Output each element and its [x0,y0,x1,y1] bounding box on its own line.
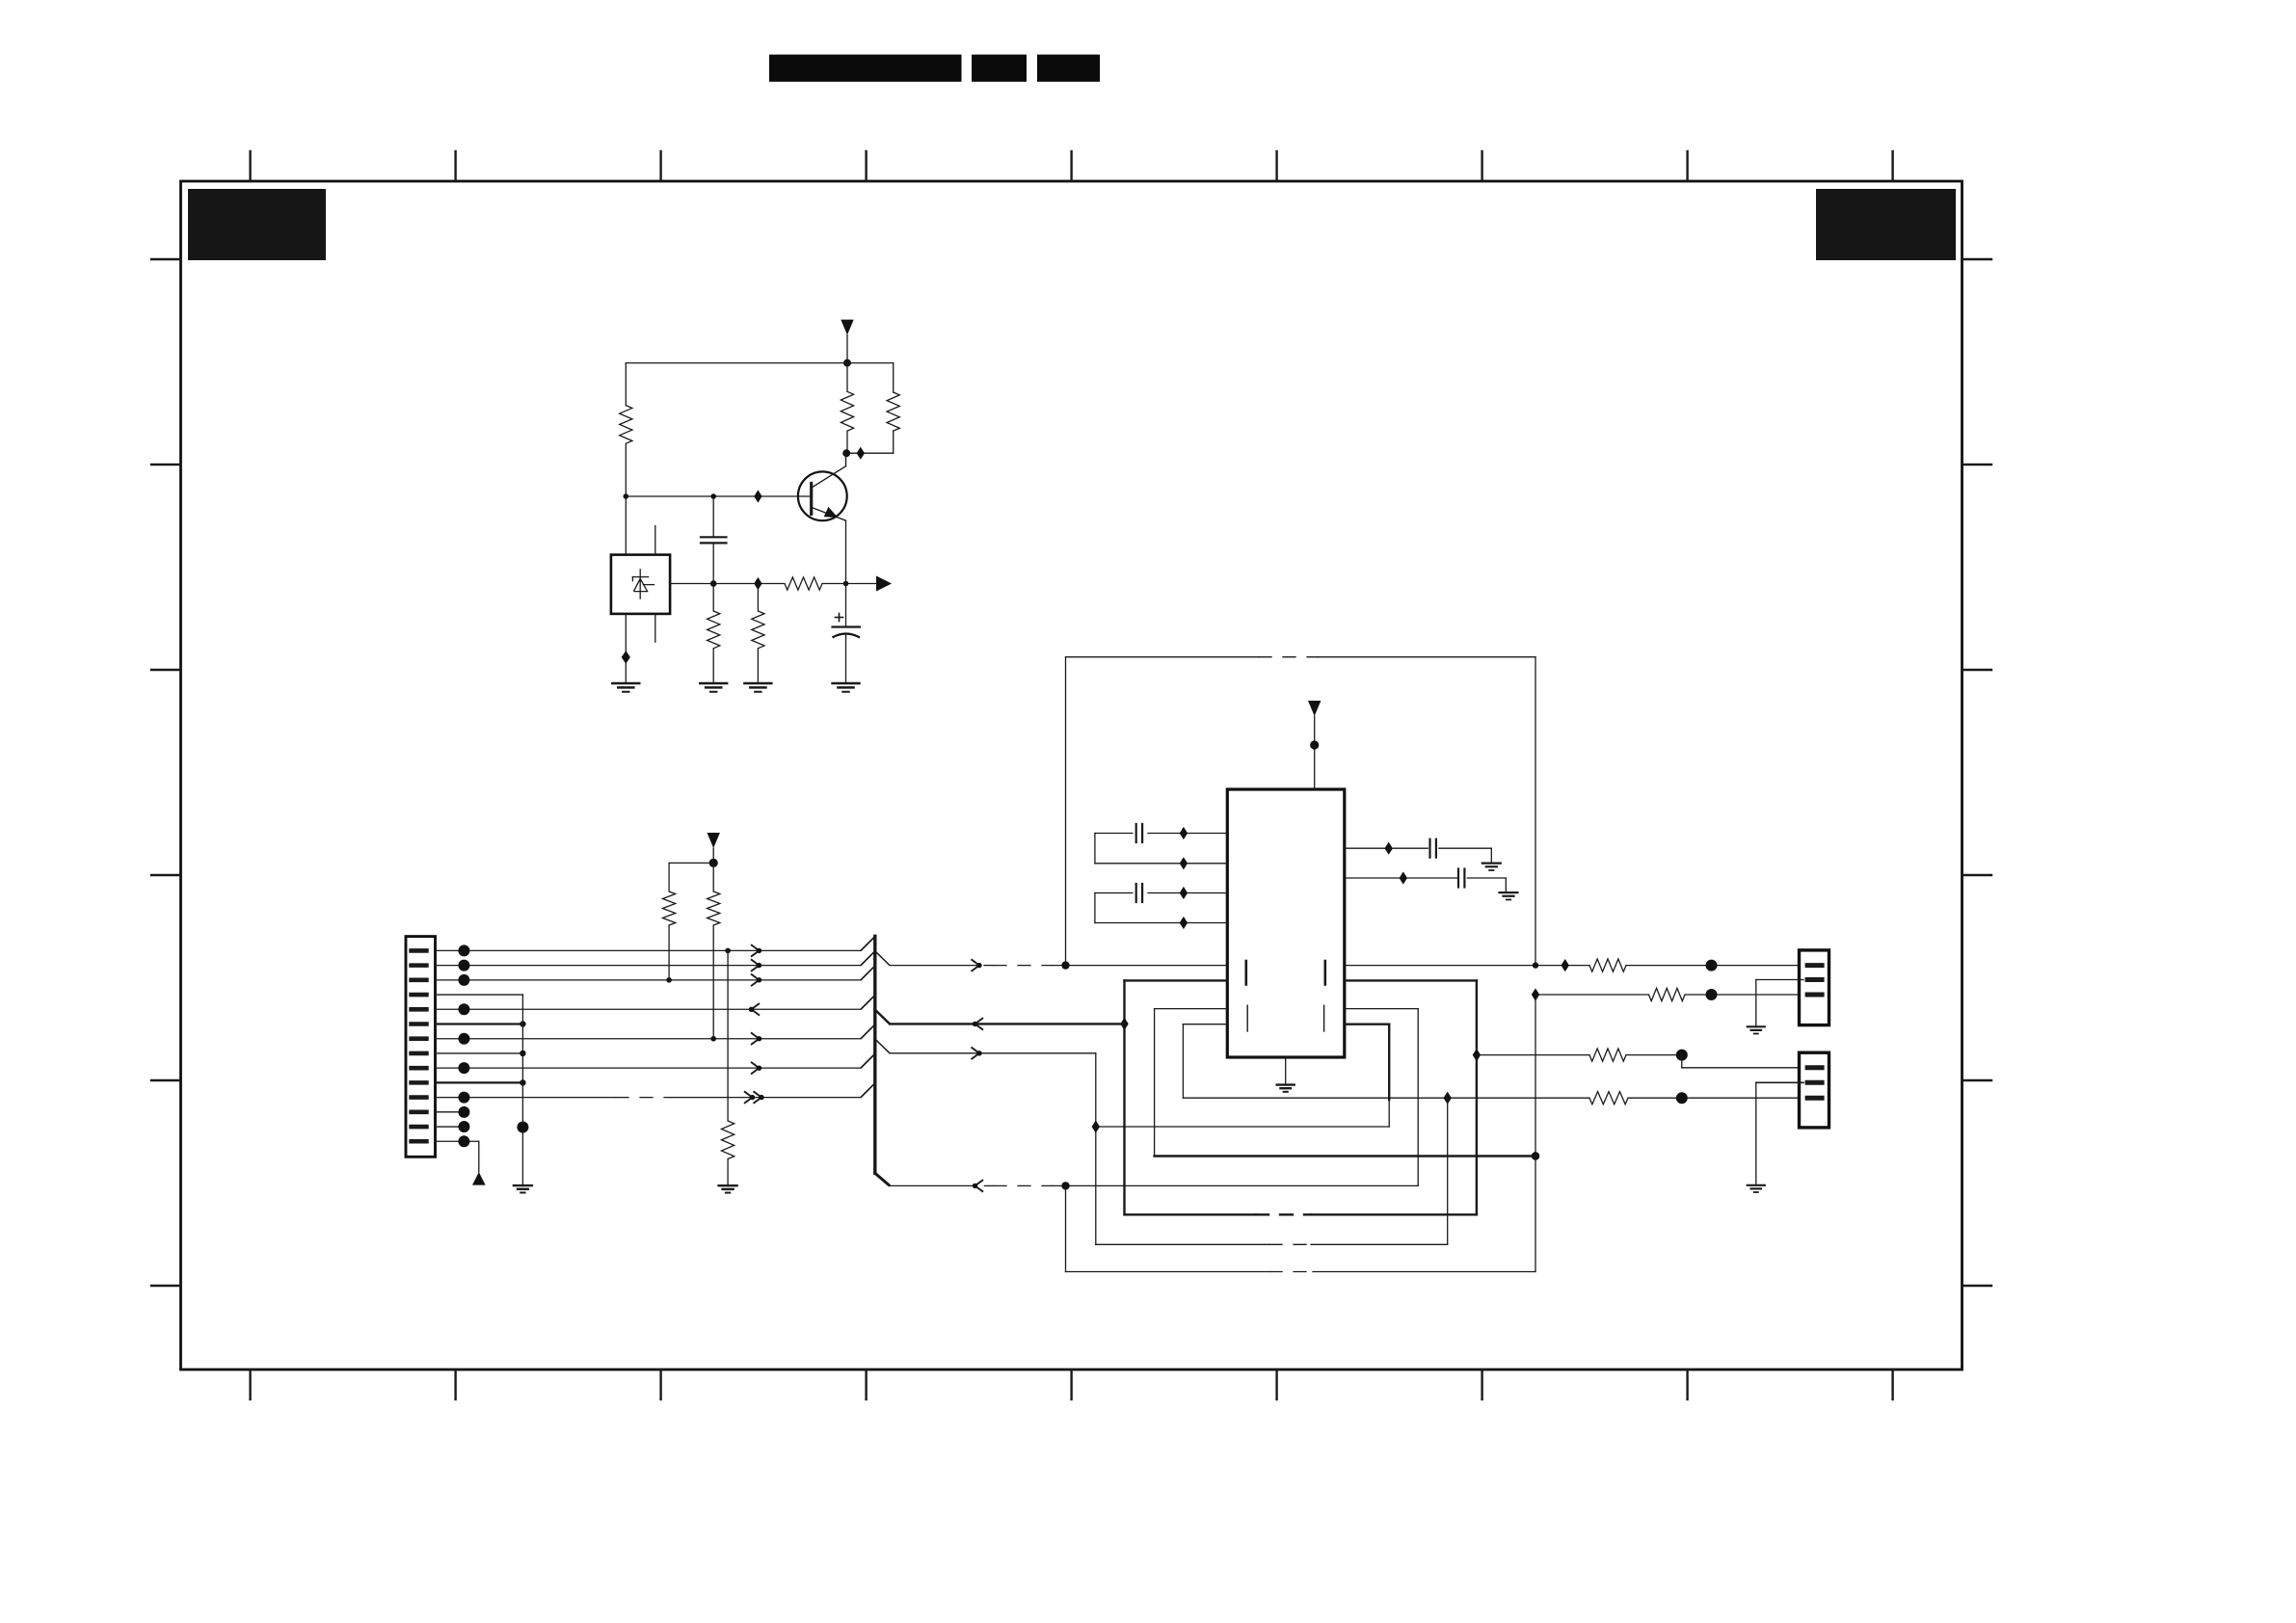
capacitor C3 (xtal1) [1095,824,1142,842]
arrow chevron row7 [751,1032,761,1045]
node marker diamond (box gnd) [622,651,630,664]
transistor Q1 (NPN) [798,453,847,520]
wire V8 [1447,1098,1449,1244]
wire base node to discriminator box [625,496,627,555]
node marker diamond xtal2 bottom [1180,917,1188,929]
bus exit L4 [875,1039,890,1053]
node marker diamond L6 [1444,1092,1452,1104]
node row3 J1 [458,974,469,986]
bus entry row9 [861,1053,875,1068]
node base-left [624,493,629,499]
node row3 pullup junction [666,977,672,983]
node row6 gnd rail [520,1021,525,1026]
wire L1 dashed [984,965,1052,967]
wire R8 to row7 [712,925,714,1039]
wire R3 row [1477,1054,1589,1056]
wire L1 into IC [1052,965,1227,967]
redacted title bar 3 [1037,55,1100,82]
wire L9 solid [1052,1184,1418,1186]
capacitor C1 (base decoupling) [701,496,727,584]
node row7 pullup junction [710,1036,716,1042]
node L1 shield box right [1533,962,1538,968]
node R1 junction [1706,960,1718,971]
wire R2 to collector node [846,431,848,453]
node output-cap junction [710,580,717,587]
wire IC pin B [1345,877,1457,879]
wire R12 to dot [1626,1054,1682,1056]
arrow chevron L3 (left) [973,1018,983,1030]
node marker diamond thick-loop right [1473,1049,1481,1061]
wire row1 (J1 pin1) [436,949,862,951]
node marker diamond (collector) [857,447,865,460]
node marker diamond xtal2 top [1180,887,1188,899]
node marker diamond V10 [1532,988,1539,1000]
wire L3 (thick) bus to loop [890,1023,1124,1024]
wire IC pin (xtal1 top) [1148,833,1227,835]
node row12 J1 [458,1106,469,1118]
wire loop B right [1345,1009,1418,1186]
wire L12 [1066,1271,1536,1273]
node pull-up supply [709,859,718,867]
node L9 at V1 [1061,1182,1069,1189]
bus entry row5 [861,995,875,1009]
wire row5 (J1 pin5) [436,1008,862,1010]
arrow chevron L1 [972,959,982,971]
node R4 junction [1676,1092,1688,1104]
wire R13 to J3 pin3 [1628,1097,1800,1099]
discriminator X1 (boxed zener) [611,555,670,614]
node V10 loopB junction [1532,1152,1539,1159]
wire L9 dashed [985,1184,1053,1186]
arrow chevron row3 [751,974,761,987]
supply arrow (pull-ups) [707,833,720,863]
node row1 J1 [458,945,469,956]
node base-cap junction [710,493,716,499]
supply arrow (transistor circuit) [841,320,853,363]
pin stub below box [654,614,656,642]
connector J3 pin bars [1807,1068,1822,1098]
node IC supply [1310,740,1319,749]
capacitor C6 (pin B) [1458,869,1506,893]
bus entry row7 [861,1024,875,1039]
arrow chevron L4 [972,1048,982,1060]
resistor R11 (row R2) [1649,988,1686,1000]
ground (R6) [744,683,771,692]
IC U1 [1227,789,1345,1057]
ground (C6) [1500,892,1518,899]
node supply rail [843,359,851,367]
arrow chevron row9 [751,1062,761,1075]
arrow chevron row2 [751,959,761,971]
connector J1 pin bars [412,950,427,1141]
wire row13 stub (J1 pin13) [436,1126,465,1128]
node row11 J1 [458,1092,469,1104]
resistor R13 (row R4) [1589,1092,1628,1104]
connector J2 pin bars [1807,966,1822,995]
wire thick loop left [1125,980,1228,1214]
node row10 gnd rail [520,1079,525,1085]
wire row9 (J1 pin9) [436,1067,862,1069]
wire R2 row [1535,994,1649,996]
ground (rail) [514,1185,532,1192]
wire V6 lower [1388,1100,1390,1127]
ground (C2) [833,683,860,692]
wire row7 (J1 pin7) [436,1038,862,1040]
node marker diamond xtal1 bottom [1180,857,1188,869]
ground (J2) [1748,1026,1765,1033]
wire box to ground [625,614,627,683]
node R2 junction [1706,989,1718,1000]
resistor R1 (bias upper-left) [620,406,632,444]
wire row11 (J1 pin11) [436,1097,862,1099]
connector J2 (right upper) [1800,950,1829,1025]
resistor R12 (row R3) [1589,1049,1626,1061]
wire output row [670,583,785,585]
resistor R3 (parallel collector) [887,392,899,431]
wire xtal2 loop [1094,893,1096,923]
connector J1 (left, 14-pin) [406,937,436,1157]
redacted title bar 2 [972,55,1027,82]
ground (R5) [700,683,727,692]
IC ground stem [1285,1057,1287,1085]
output arrow [876,576,892,592]
wire to R3 [893,363,894,392]
bus (bundle trunk) [875,936,890,1185]
ground (J3) [1748,1185,1765,1192]
wire thick loop bottom [1125,1213,1477,1215]
node ground rail junction [517,1122,528,1133]
shield box top edge [1066,656,1536,658]
wire row6 (J1 pin6 to gnd rail) [436,1023,523,1024]
wire L1 bus to box [890,965,976,967]
wire emitter down [845,520,847,583]
bus exit L3 [875,1010,890,1024]
wire xtal1 loop [1094,834,1096,864]
resistor R6 (lower right) [752,584,764,684]
redacted label top-left [188,189,326,260]
bus exit L1 [875,951,890,966]
bus entry row11 [861,1083,875,1098]
node row5 J1 [458,1003,469,1015]
wire V10 [1535,995,1536,1272]
node emitter junction [843,581,849,587]
resistor R7 (pull-up row3) [663,891,676,925]
wire row10 (J1 pin10 to gnd rail) [436,1081,523,1083]
shield box left edge [1065,657,1067,966]
wire row2 (J1 pin2) [436,965,862,967]
wire R11 to J2 pin3 [1685,994,1800,996]
node row7 J1 [458,1033,469,1045]
arrow double chevron row11 [744,1091,764,1104]
resistor R2 (collector load) [841,391,853,431]
wire IC pin (xtal1 bottom) [1095,863,1227,865]
wire R3 down and across [847,431,894,453]
arrow chevron row1 [751,945,761,957]
connector J3 (right lower) [1800,1052,1829,1128]
supply arrow (IC) [1308,701,1321,789]
wire supply to R7 [669,863,713,891]
wire row1 to R9 [727,950,729,1121]
redacted label top-right [1816,189,1956,260]
wire ground rail [521,995,523,1185]
wire V2 vertical [1095,1053,1097,1245]
wire loop A right (thick) [1345,1024,1389,1100]
wire row14 (J1 pin14 to supply) [436,1141,479,1172]
resistor R9 (pull-down row1) [722,1121,734,1159]
wire row3 (J1 pin3) [436,979,862,981]
wire R3 jog to J3 pin1 [1682,1055,1800,1068]
node loop B bottom end [1532,1152,1539,1159]
node marker diamond pinA [1385,842,1393,855]
node marker diamond (output row) [754,577,761,590]
node row8 gnd rail [520,1051,525,1056]
IC U1 internal contact marks [1246,961,1325,1031]
wire V1 lower [1065,1185,1067,1271]
wire IC pin (xtal2 bottom) [1095,922,1227,924]
wire J2 pin2 to ground [1756,980,1803,1027]
wire row12 stub (J1 pin12) [436,1111,465,1113]
wire IC pin (xtal2 top) [1148,892,1227,894]
node marker diamond thick-loop left [1120,1018,1128,1030]
wire to R1 [625,363,627,406]
wire L7 [1096,1126,1389,1128]
arrow chevron row5 (left) [749,1003,760,1016]
wire IC pin A [1345,847,1428,849]
wire loop A left [1183,1024,1227,1099]
node row13 J1 [458,1121,469,1132]
wire R7 to row3 [668,925,670,980]
wire L11 [1096,1243,1448,1245]
resistor R8 (pull-up row7) [707,891,720,925]
resistor R5 (lower left) [707,584,720,684]
capacitor C4 (xtal2) [1095,884,1142,902]
ground (IC) [1277,1085,1295,1092]
node marker diamond (base) [754,490,761,502]
ground (box) [612,683,639,692]
pin stub above box [654,526,656,555]
wire supply rail horizontal [626,362,893,364]
node row9 J1 [458,1062,469,1074]
wire R10 to J2 pin1 [1626,965,1800,967]
wire R1 to base node [625,443,627,496]
wire supply to R8 [712,863,714,891]
arrow chevron L9 (left) [973,1180,983,1192]
bus entry row1 [861,937,875,951]
shield box right edge [1535,657,1536,966]
wire thick loop right [1345,980,1477,1214]
wire base [626,495,811,497]
wire R9 to ground [727,1159,729,1186]
capacitor C5 (pin A) [1430,839,1492,864]
node R3 junction [1676,1050,1688,1061]
resistor R4 (output series) [785,577,822,590]
wire to R2 [846,363,848,392]
wire row4 (J1 pin4 to gnd rail) [436,994,523,996]
node L1 shield box left [1061,961,1069,969]
wire L9 bus to chevron [890,1184,976,1186]
wire loop B bottom (thick) [1155,1155,1535,1157]
node row14 J1 [458,1135,469,1147]
bus entry row2 [861,951,875,966]
node marker diamond V2 [1092,1120,1100,1132]
capacitor C2 (electrolytic) [833,584,861,684]
node marker diamond pinB [1400,871,1407,884]
wire row8 (J1 pin8 to gnd rail) [436,1052,523,1054]
ground (C5) [1482,864,1501,870]
bus entry row3 [861,966,875,980]
node row2 J1 [458,960,469,971]
wire L4 bus to corner [890,1052,1096,1054]
wire L6 row [1183,1097,1589,1099]
node collector junction [842,449,850,457]
redacted title bar 1 [769,55,962,82]
node marker diamond xtal1 top [1180,827,1188,839]
wire loop B left [1155,1009,1228,1157]
node marker diamond L1 [1562,959,1569,971]
ground (R9) [719,1185,737,1192]
supply arrow (row14, up) [472,1172,486,1185]
wire R4 to emitter node [822,583,876,585]
resistor R10 (row R1) [1589,959,1626,971]
node row1 pullup junction [725,948,731,954]
wire L1 IC to resistor [1345,965,1589,967]
wire J3 pin2 to ground [1756,1082,1803,1185]
